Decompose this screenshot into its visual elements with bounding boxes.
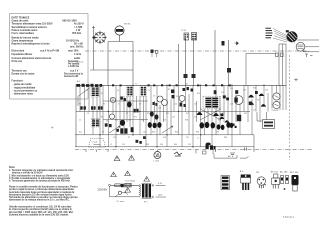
speaker LS1 xyxy=(286,30,298,42)
resistor pair R3 xyxy=(91,106,96,109)
svg-text:C8: C8 xyxy=(106,121,108,123)
svg-text:R12: R12 xyxy=(134,117,137,119)
AGC column parts xyxy=(171,90,175,99)
dark electrolytic row xyxy=(148,122,234,130)
svg-text:L 1: L 1 xyxy=(76,58,79,60)
dashed vertical boundary xyxy=(289,55,291,160)
partial bus AVC xyxy=(103,100,148,102)
tube V2 top view xyxy=(115,24,131,42)
spec table text xyxy=(12,17,85,96)
svg-text:S1a: S1a xyxy=(79,132,82,134)
tube V3 symbol xyxy=(184,33,189,40)
svg-text:TR 1: TR 1 xyxy=(144,201,148,203)
small part xyxy=(143,136,146,139)
mid bus 2 xyxy=(76,111,250,113)
speaker label stack xyxy=(266,28,273,38)
svg-text:R23: R23 xyxy=(253,88,256,90)
wire secondary top xyxy=(152,184,166,186)
wire vertical xyxy=(214,30,216,86)
svg-text:T2: T2 xyxy=(135,84,137,86)
warning triangle W3 xyxy=(111,172,117,177)
driver transformer T6 xyxy=(203,96,220,109)
svg-text:C12: C12 xyxy=(176,96,179,98)
svg-text:R25: R25 xyxy=(244,113,247,115)
svg-text:cca 5 % la P=1W: cca 5 % la P=1W xyxy=(40,50,60,53)
svg-text:5 632 10-1: 5 632 10-1 xyxy=(283,217,295,219)
capacitor cluster C6 xyxy=(120,97,126,102)
svg-text:C31: C31 xyxy=(113,137,116,139)
svg-text:Impedanta difuzor: Impedanta difuzor xyxy=(12,53,33,56)
svg-text:V2: V2 xyxy=(186,84,188,86)
pinout P2 TO-220 xyxy=(240,171,251,190)
wire vertical xyxy=(178,44,180,86)
notes text xyxy=(9,166,74,183)
connector J2 xyxy=(276,53,284,57)
tick marks on line xyxy=(196,150,213,155)
small ref labels field xyxy=(79,84,268,146)
bell capacitor right xyxy=(213,113,219,116)
svg-text:x 1000 Hz: x 1000 Hz xyxy=(68,65,80,68)
svg-text:EM 84: EM 84 xyxy=(124,24,131,26)
right coupling parts xyxy=(223,95,229,100)
svg-text:R11: R11 xyxy=(147,113,150,115)
electrolytic C8 xyxy=(127,102,132,108)
resistor R5 on wire xyxy=(184,74,188,78)
svg-text:R14: R14 xyxy=(197,93,200,95)
svg-text:EFT 353: EFT 353 xyxy=(290,172,299,174)
output stage bottom cluster xyxy=(206,143,216,150)
svg-text:min. 500 Hz: min. 500 Hz xyxy=(70,45,84,48)
wire vertical xyxy=(193,40,195,86)
svg-text:C35: C35 xyxy=(163,137,166,139)
top bus component blobs left xyxy=(77,84,103,87)
svg-text:T3: T3 xyxy=(148,90,150,92)
top bus xyxy=(76,84,286,86)
AF tube circle xyxy=(234,96,243,105)
antenna terminal xyxy=(92,26,95,28)
pilot lamp M1 xyxy=(154,150,161,163)
svg-text:- alimentare retea: - alimentare retea xyxy=(13,93,34,96)
svg-text:R22: R22 xyxy=(218,120,221,122)
svg-text:R6: R6 xyxy=(101,117,103,119)
output tube marks xyxy=(275,96,279,107)
partial bus AF xyxy=(103,119,148,121)
ground symbol xyxy=(230,153,235,156)
trimmer on section line xyxy=(151,50,158,58)
svg-text:T 125 50mA: T 125 50mA xyxy=(125,180,136,183)
svg-text:C45: C45 xyxy=(188,144,191,146)
svg-text:C22: C22 xyxy=(243,90,246,92)
svg-text:C 1a-b: C 1a-b xyxy=(92,142,98,144)
power transformer TR1 primary coil xyxy=(139,185,142,197)
wire vertical xyxy=(107,42,109,87)
svg-text:C11: C11 xyxy=(141,120,144,122)
svg-text:R7: R7 xyxy=(126,113,128,115)
electrolytic C10 xyxy=(120,120,125,126)
svg-text:R10: R10 xyxy=(115,120,118,122)
svg-text:iesirea la dif: iesirea la dif xyxy=(64,75,78,78)
driver stage parts xyxy=(235,90,258,121)
wire vertical xyxy=(132,42,134,87)
section dash-dot line upper xyxy=(85,50,310,52)
svg-text:R32: R32 xyxy=(175,132,178,134)
tube V5 triode xyxy=(110,97,115,102)
svg-text:C7: C7 xyxy=(118,104,120,106)
svg-text:220/240V: 220/240V xyxy=(98,190,108,192)
jack scribble xyxy=(174,152,182,156)
wire vertical xyxy=(185,40,187,86)
mixer tube circle xyxy=(179,95,185,101)
warning triangle W1 xyxy=(114,156,120,161)
speaker leader lines xyxy=(273,29,288,43)
svg-text:C3: C3 xyxy=(87,113,89,115)
svg-text:Raportul semnal/zgomot la iesi: Raportul semnal/zgomot la iesire xyxy=(12,43,51,46)
svg-text:R34: R34 xyxy=(196,132,199,134)
output tube V8 xyxy=(273,101,280,108)
svg-text:455 kHz: 455 kHz xyxy=(72,32,82,35)
wire speaker leads xyxy=(297,40,319,52)
wire output verticals xyxy=(279,44,286,86)
svg-text:R5: R5 xyxy=(103,104,105,106)
input antenna section xyxy=(76,80,81,147)
tone switch parts xyxy=(105,123,112,127)
svg-text:R16: R16 xyxy=(163,120,166,122)
resistor pair R4 xyxy=(98,106,103,109)
tube V1 socket xyxy=(93,31,107,45)
svg-text:D1: D1 xyxy=(153,96,155,98)
svg-text:4 ohm: 4 ohm xyxy=(74,53,82,56)
wire right bus xyxy=(246,53,276,55)
wire jog xyxy=(214,154,249,159)
tube V6 triode xyxy=(109,114,114,119)
svg-text:T1: T1 xyxy=(86,90,88,92)
svg-text:T7: T7 xyxy=(197,138,199,140)
svg-text:245V: 245V xyxy=(158,195,163,197)
bottom bus xyxy=(75,146,232,148)
wire grid bus xyxy=(108,41,133,43)
section dash-dot line lower xyxy=(75,149,312,151)
svg-text:C23: C23 xyxy=(230,104,233,106)
svg-text:4. Tensiunea generator de ante: 4. Tensiunea generator de antena acordat… xyxy=(9,180,70,183)
IF transformer T2 xyxy=(127,86,134,97)
tube V1 socket pins xyxy=(95,33,105,43)
svg-text:R15: R15 xyxy=(166,113,169,115)
svg-text:R27: R27 xyxy=(257,100,260,102)
svg-text:C4: C4 xyxy=(117,90,119,92)
wire vertical xyxy=(228,40,230,86)
warning triangle W2 xyxy=(129,155,135,160)
bottom small parts xyxy=(117,129,142,144)
svg-text:L5: L5 xyxy=(110,144,112,146)
svg-text:R38: R38 xyxy=(146,144,149,146)
output transformer T5 xyxy=(294,42,305,51)
resistor pair R2 xyxy=(80,106,86,109)
svg-text:K 1 retea: K 1 retea xyxy=(117,200,126,203)
svg-text:P2: P2 xyxy=(128,137,130,139)
detector diode parts xyxy=(153,102,158,106)
mixer lower parts xyxy=(180,103,186,108)
wire tube V1 stem xyxy=(93,28,95,52)
grid parts above driver xyxy=(183,87,217,94)
svg-text:P1: P1 xyxy=(102,132,104,134)
svg-text:R40: R40 xyxy=(174,144,177,146)
svg-text:C39: C39 xyxy=(216,132,219,134)
spec table frame xyxy=(10,14,89,100)
mains input terminal xyxy=(109,184,111,186)
output tube V7 xyxy=(273,93,280,100)
svg-text:R21: R21 xyxy=(222,113,225,115)
filter choke L1 xyxy=(125,183,132,187)
mains switch S3 xyxy=(115,191,128,203)
svg-text:C17: C17 xyxy=(194,104,197,106)
svg-text:V1: V1 xyxy=(110,98,112,100)
tube V4 symbol xyxy=(192,33,197,41)
resistor R6 on wire xyxy=(192,74,196,78)
AF coupling caps xyxy=(150,111,159,119)
svg-text:B D: B D xyxy=(240,171,244,173)
svg-text:alimentarii de la reteaua elec: alimentarii de la reteaua electrica in 1… xyxy=(9,199,70,202)
pinout P3 TO-39 xyxy=(256,172,266,189)
terminal marks xyxy=(305,54,313,57)
resistor pair R8 xyxy=(134,109,139,113)
svg-text:R36: R36 xyxy=(224,137,227,139)
svg-text:C10: C10 xyxy=(128,120,131,122)
svg-text:AC 180: AC 180 xyxy=(280,171,288,174)
svg-text:C37: C37 xyxy=(186,137,189,139)
capacitor C21 xyxy=(222,41,225,46)
oscillator circles xyxy=(157,96,163,102)
phase splitter cross wiring xyxy=(200,109,221,120)
label box B1 xyxy=(257,112,275,129)
svg-text:C33: C33 xyxy=(143,132,146,134)
svg-text:C2: C2 xyxy=(79,120,81,122)
IF transformer T4 lower can xyxy=(91,119,99,128)
registration mark xyxy=(51,126,54,129)
svg-text:C26: C26 xyxy=(265,90,268,92)
svg-text:C41: C41 xyxy=(122,144,125,146)
tube V5 cathode mark xyxy=(112,97,114,100)
svg-text:R19: R19 xyxy=(230,88,233,90)
fuse F1 xyxy=(115,180,136,187)
svg-text:Schema electrica valabila de l: Schema electrica valabila de la seria 15… xyxy=(9,213,69,216)
terminal mark right xyxy=(294,78,298,81)
node dot xyxy=(92,36,94,38)
dash line stub ticks xyxy=(86,150,108,153)
wire vertical xyxy=(93,51,95,70)
svg-text:C27: C27 xyxy=(253,110,256,112)
wire mains lower xyxy=(110,186,140,197)
svg-text:R17: R17 xyxy=(186,113,189,115)
junction dots xyxy=(99,85,264,148)
svg-text:R30: R30 xyxy=(152,132,155,134)
driver bias cluster xyxy=(220,114,237,129)
mains wire top xyxy=(111,184,140,186)
diagonal feeder wire xyxy=(78,88,89,106)
power transformer TR1 core xyxy=(142,183,152,203)
switch arrows xyxy=(109,126,173,133)
vertical wires dense band xyxy=(80,85,286,147)
tuning gang outline xyxy=(89,138,106,147)
volume pot cluster xyxy=(120,127,133,134)
svg-text:C9: C9 xyxy=(139,104,141,106)
diode D1 xyxy=(235,42,239,46)
svg-text:C43: C43 xyxy=(160,144,163,146)
svg-text:Priza cas: Priza cas xyxy=(12,60,23,63)
svg-text:BF 214: BF 214 xyxy=(271,172,279,174)
svg-text:R9: R9 xyxy=(168,89,170,91)
svg-text:BC: BC xyxy=(256,172,259,174)
secondary top node xyxy=(152,184,154,187)
pinout P4 xyxy=(271,172,280,189)
svg-text:C13: C13 xyxy=(158,108,161,110)
IF transformer T3 xyxy=(140,86,147,97)
secondary bottom node xyxy=(152,196,154,199)
svg-text:R2: R2 xyxy=(79,103,81,105)
svg-text:C15: C15 xyxy=(174,104,177,106)
svg-text:V5 EL84: V5 EL84 xyxy=(272,110,279,112)
switch S2 xyxy=(121,184,124,187)
AF tube electrode xyxy=(235,98,238,103)
wire secondary bottom xyxy=(152,196,167,198)
capacitor C22 on wire xyxy=(227,68,231,73)
top bus component ticks xyxy=(112,84,231,86)
bell capacitor left xyxy=(197,112,203,115)
ferrite antenna label xyxy=(76,58,84,64)
mid bus 3 xyxy=(75,134,252,136)
wire horizontal mid xyxy=(90,69,133,71)
wire vertical xyxy=(245,54,247,87)
svg-text:V3 V4: V3 V4 xyxy=(181,30,186,32)
svg-text:ant ferita: ant ferita xyxy=(76,61,84,64)
warning triangle W6 xyxy=(125,188,131,193)
pinout P1 stacked block xyxy=(221,176,230,190)
svg-text:L 204: L 204 xyxy=(154,161,160,163)
pinout P6 xyxy=(290,172,299,191)
bus corner right xyxy=(232,135,254,152)
driver stage bells xyxy=(248,95,254,98)
svg-text:C14: C14 xyxy=(172,117,175,119)
warning triangle W4 xyxy=(125,171,131,176)
IF transformer T1 xyxy=(91,87,99,98)
svg-text:Durata cas de joasa: Durata cas de joasa xyxy=(12,72,36,75)
warning triangle W5 xyxy=(144,177,150,182)
svg-text:C16: C16 xyxy=(194,117,197,119)
terminal pair xyxy=(216,148,247,152)
svg-text:Frecv. intermediara: Frecv. intermediara xyxy=(12,32,35,35)
svg-text:Functiuni:: Functiuni: xyxy=(12,80,24,83)
svg-text:R1: R1 xyxy=(101,93,103,95)
svg-text:C18: C18 xyxy=(221,92,224,94)
svg-text:R18: R18 xyxy=(185,120,188,122)
pinout P5 xyxy=(280,171,289,190)
